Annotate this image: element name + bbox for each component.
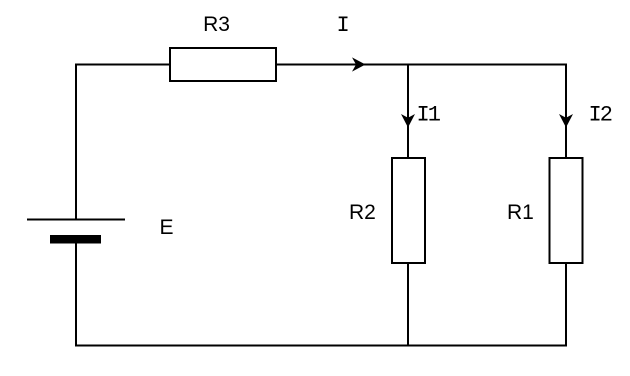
svg-text:R1: R1 <box>507 201 534 224</box>
wire: top-left horizontal segment from left rail to R3 <box>75 64 170 66</box>
wire: R2 branch vertical upper <box>407 65 409 159</box>
svg-text:R2: R2 <box>349 201 376 224</box>
svg-text:R3: R3 <box>203 13 230 36</box>
wire: R2 branch vertical lower <box>407 263 409 346</box>
svg-text:I: I <box>337 13 350 38</box>
current arrow I (rightward) on top wire <box>352 57 366 71</box>
wire: R1 branch vertical upper <box>565 64 567 159</box>
resistor R3 <box>170 48 276 81</box>
battery E: short thick plate <box>50 235 101 244</box>
wire: bottom horizontal rail <box>75 345 567 347</box>
svg-text:E: E <box>160 216 174 239</box>
battery E: long thin plate <box>27 219 125 221</box>
svg-text:I2: I2 <box>589 102 612 127</box>
wire: R1 branch vertical lower <box>565 263 567 347</box>
current arrow I1 (downward) <box>401 114 415 128</box>
current arrow I2 (downward) <box>559 114 573 128</box>
resistor R1 <box>550 158 583 263</box>
wire: left vertical rail upper (from top wire to battery) <box>75 64 77 220</box>
svg-text:I1: I1 <box>417 102 441 127</box>
wire: top horizontal segment from R3 to top-right corner <box>276 64 566 66</box>
wire: left vertical rail lower (from battery to bottom wire) <box>75 244 77 347</box>
resistor R2 <box>392 158 425 263</box>
